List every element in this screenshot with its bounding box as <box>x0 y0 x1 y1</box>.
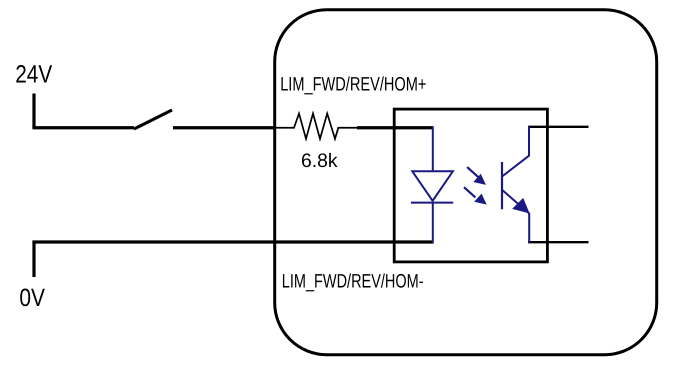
wire resistor to optocoupler anode <box>357 126 434 129</box>
optocoupler U1 body <box>394 109 547 262</box>
wire 24V rail to switch <box>32 126 134 129</box>
wire 0V vertical drop <box>32 242 35 277</box>
LED D1 triangle <box>412 171 453 201</box>
light arrow 2 <box>464 187 486 204</box>
phototransistor Q1 emitter arrowhead <box>513 198 530 213</box>
svg-text:6.8k: 6.8k <box>301 150 338 172</box>
drive enclosure rounded box <box>275 10 657 355</box>
light arrow 1 <box>467 167 485 184</box>
svg-text:24V: 24V <box>15 60 52 88</box>
phototransistor Q1 collector <box>502 127 529 177</box>
svg-text:0V: 0V <box>19 284 45 312</box>
svg-text:LIM_FWD/REV/HOM-: LIM_FWD/REV/HOM- <box>282 271 424 293</box>
wire emitter output stub <box>528 241 589 243</box>
wire 24V vertical drop <box>32 94 35 128</box>
LED D1 cathode bar <box>411 202 453 204</box>
resistor R1 6.8k zigzag <box>276 114 358 139</box>
wire collector output stub <box>528 126 589 128</box>
phototransistor Q1 emitter <box>502 190 529 243</box>
LED D1 cathode lead <box>432 203 434 243</box>
LED D1 anode lead <box>432 127 434 172</box>
phototransistor Q1 base bar <box>501 162 503 209</box>
wire switch to enclosure <box>173 126 276 129</box>
switch S1 blade (open) <box>134 110 172 129</box>
svg-text:LIM_FWD/REV/HOM+: LIM_FWD/REV/HOM+ <box>280 74 426 96</box>
wire 0V rail to optocoupler cathode <box>32 240 433 243</box>
